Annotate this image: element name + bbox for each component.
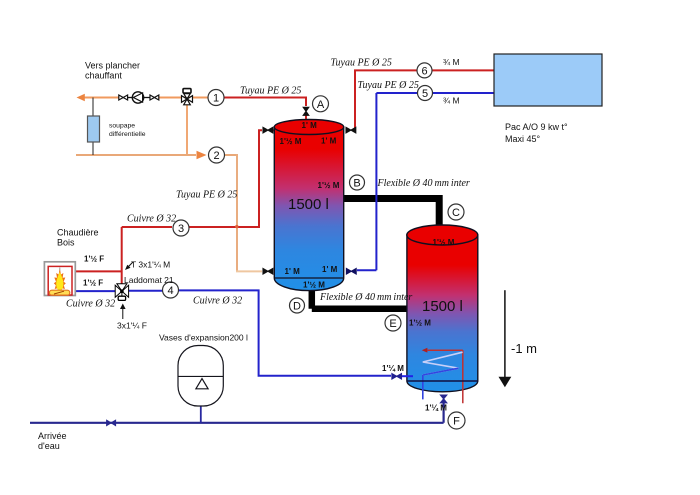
- svg-text:3x1'¼ F: 3x1'¼ F: [117, 321, 147, 331]
- svg-text:4: 4: [167, 285, 173, 297]
- svg-text:1'½ M: 1'½ M: [303, 281, 325, 290]
- pump P1: [132, 92, 150, 103]
- coil blue return in tank T2: [423, 368, 459, 399]
- svg-text:1' M: 1' M: [302, 121, 318, 130]
- svg-text:B: B: [353, 178, 360, 190]
- svg-text:1: 1: [213, 93, 219, 105]
- node 5: [418, 86, 433, 101]
- wire orange return from floor heating: [76, 151, 262, 272]
- svg-text:soupape: soupape: [109, 123, 135, 130]
- svg-text:1'¼ M: 1'¼ M: [425, 403, 447, 412]
- svg-text:¾ M: ¾ M: [443, 96, 460, 106]
- svg-text:Vers plancher: Vers plancher: [85, 60, 140, 70]
- svg-text:1' M: 1' M: [321, 136, 337, 145]
- svg-text:1'½ M: 1'½ M: [433, 238, 455, 247]
- wire navy water inlet line: [30, 403, 444, 423]
- arrow annotation to T junction: [125, 262, 133, 270]
- node B: [350, 175, 365, 190]
- svg-text:2: 2: [213, 150, 219, 162]
- svg-text:¾ M: ¾ M: [443, 57, 460, 67]
- svg-text:1' M: 1' M: [285, 267, 301, 276]
- node 3: [173, 220, 189, 236]
- coil red feed in tank T2: [428, 350, 463, 403]
- node 1: [208, 90, 224, 106]
- expansion vessel: [178, 346, 223, 423]
- svg-text:Flexible Ø 40 mm inter: Flexible Ø 40 mm inter: [319, 292, 412, 303]
- boiler icon: [44, 262, 75, 296]
- laddomat 3-way valve: [115, 284, 128, 301]
- svg-text:d'eau: d'eau: [38, 441, 60, 451]
- soupape differentielle: [88, 98, 100, 156]
- svg-text:1'½ M: 1'½ M: [280, 137, 302, 146]
- svg-text:1' M: 1' M: [322, 265, 338, 274]
- svg-text:Tuyau PE Ø 25: Tuyau PE Ø 25: [331, 58, 392, 69]
- flexible pipe D-E (black): [312, 290, 408, 309]
- svg-text:T 3x1'¼ M: T 3x1'¼ M: [131, 260, 170, 270]
- 3-way mixing valve V1: [182, 89, 193, 105]
- svg-text:Laddomat 21: Laddomat 21: [124, 275, 174, 285]
- tank T1 top right valve: [346, 127, 356, 133]
- node E: [385, 315, 401, 331]
- tank T1 body: [274, 120, 343, 291]
- svg-text:différentielle: différentielle: [109, 131, 146, 138]
- tank T1 top center valve: [303, 107, 309, 115]
- junction dot orange/red crossing: [235, 225, 238, 228]
- wire orange drop from 3-way valve: [186, 105, 188, 154]
- node 6: [417, 63, 432, 78]
- svg-text:Arrivée: Arrivée: [38, 431, 67, 441]
- node F: [448, 412, 465, 429]
- svg-text:Pac A/O 9 kw t°: Pac A/O 9 kw t°: [505, 122, 568, 132]
- heat pump box: [494, 54, 602, 106]
- svg-text:F: F: [453, 416, 460, 428]
- svg-text:1500 l: 1500 l: [288, 196, 329, 213]
- svg-text:Tuyau PE Ø 25: Tuyau PE Ø 25: [176, 189, 237, 200]
- svg-text:Cuivre Ø 32: Cuivre Ø 32: [127, 214, 176, 225]
- svg-text:D: D: [293, 301, 301, 313]
- svg-text:1'½ M: 1'½ M: [318, 181, 340, 190]
- svg-text:Flexible Ø 40 mm inter: Flexible Ø 40 mm inter: [377, 178, 470, 189]
- svg-text:A: A: [317, 99, 325, 111]
- svg-text:Cuivre Ø 32: Cuivre Ø 32: [66, 299, 115, 310]
- svg-text:Cuivre Ø 32: Cuivre Ø 32: [193, 296, 242, 307]
- svg-text:C: C: [452, 207, 460, 219]
- tank T2 top ellipse: [407, 225, 478, 245]
- svg-text:chauffant: chauffant: [85, 70, 122, 80]
- svg-text:1'½ F: 1'½ F: [83, 278, 103, 287]
- wire red tuyau PE from node 1 to tank T1 top: [224, 98, 306, 122]
- tank T1 bottom right valve: [346, 269, 356, 275]
- svg-text:1'½ F: 1'½ F: [84, 255, 104, 264]
- valve on water inlet: [107, 420, 116, 425]
- svg-text:Bois: Bois: [57, 238, 75, 248]
- svg-text:-1 m: -1 m: [511, 341, 537, 356]
- arrow annotation 3x1 1/4 F: [120, 304, 126, 320]
- svg-text:Tuyau PE Ø 25: Tuyau PE Ø 25: [358, 80, 419, 91]
- wire blue cuivre from laddomat via node 4 to tank T2 coil: [75, 290, 413, 376]
- tank T2 bottom valve: [440, 395, 446, 403]
- svg-text:Maxi 45°: Maxi 45°: [505, 134, 541, 144]
- tank T2 chord line: [407, 380, 478, 382]
- svg-text:1'½ M: 1'½ M: [409, 318, 431, 327]
- flexible pipe B-C (black): [343, 199, 439, 229]
- node D: [290, 298, 305, 313]
- wire red tuyau PE tank T1 top right to heat pump via node 6: [355, 70, 494, 130]
- wire orange supply to floor heating: [77, 94, 209, 102]
- svg-text:1'¼ M: 1'¼ M: [382, 364, 404, 373]
- svg-text:Chaudière: Chaudière: [57, 228, 99, 238]
- node A: [313, 96, 329, 112]
- valve on orange pipe right: [150, 95, 159, 100]
- svg-text:3: 3: [178, 223, 184, 235]
- node 4: [163, 282, 179, 298]
- svg-text:5: 5: [422, 88, 428, 100]
- tank T1 bottom left valve: [263, 269, 273, 275]
- svg-text:6: 6: [421, 65, 427, 77]
- tank T2 coil inlet valve: [392, 374, 402, 379]
- arrow -1m depth: [499, 290, 512, 387]
- node 2: [209, 147, 225, 163]
- tank T2 body: [407, 225, 478, 403]
- svg-text:Tuyau PE Ø 25: Tuyau PE Ø 25: [240, 86, 301, 97]
- node C: [448, 204, 464, 220]
- svg-text:1500 l: 1500 l: [422, 298, 463, 315]
- svg-text:Vases d'expansion200 l: Vases d'expansion200 l: [159, 332, 248, 342]
- coil zigzag in tank T2: [423, 352, 463, 375]
- wire red cuivre from boiler to node 3 to tank T1 top left: [75, 130, 275, 284]
- wire blue tuyau PE heat pump to tank T1 bottom right via node 5: [357, 93, 494, 270]
- valve on orange pipe left: [119, 95, 133, 100]
- svg-text:E: E: [389, 318, 396, 330]
- tank T1 top left valve: [263, 127, 273, 133]
